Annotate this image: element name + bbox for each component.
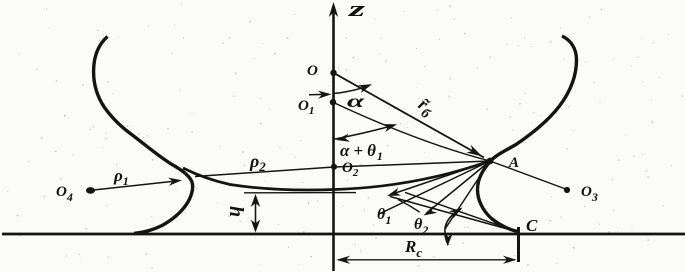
baseline [2,233,685,236]
svg-text:z: z [347,0,366,21]
arrowhead Rc left [337,256,351,264]
right flank curve [477,36,576,232]
arrowhead fan a2 [424,206,438,216]
dot O1 [330,99,336,105]
line O1 - A - O3 [333,102,567,189]
dot O [330,70,336,76]
alpha small arrow at axis [309,93,325,95]
fan line a3 from A [379,161,490,214]
arrowhead theta2 arc top [449,208,463,219]
wire rho2 line from tangency through O2 to A [195,161,490,177]
arrowhead h bottom [251,220,260,233]
arrowhead h top [251,194,260,207]
dot A [487,158,494,165]
h reference line [244,192,356,194]
arrowhead alpha arc end [358,84,372,93]
arrowhead rho1 [168,178,182,186]
alpha+theta1 arc [334,125,394,139]
svg-text:A: A [508,155,519,171]
fan line a4 from A [445,161,490,229]
arrowhead z axis [329,2,338,17]
line O2 to C [405,192,517,231]
line O to A [334,73,485,158]
theta2 angle arc [445,209,461,245]
theta1 angle arc [398,200,420,213]
Rc dimension double arrow [338,259,515,261]
alpha arc [334,86,368,94]
dot O3 [564,187,570,193]
arrowhead fan a1 [387,188,401,196]
svg-text:C: C [526,216,538,235]
arrowhead O-A line [466,145,482,157]
arrowhead alpha+theta1 left [336,134,350,142]
arrowhead alpha at axis [318,91,332,99]
arrowhead Rc right [503,256,517,264]
svg-text:O: O [307,63,318,79]
svg-text:h: h [225,206,247,217]
rho1 line from O4 [90,181,176,190]
dot O4 [86,187,95,194]
left flank curve [94,37,193,234]
fan line a2 from A [426,161,490,214]
dot O2 [331,164,337,170]
fan line a1 from A [391,161,490,195]
svg-text:α: α [347,91,366,111]
big shallow arc from left tangency to A [183,161,490,190]
arrowhead alpha+theta1 right [383,124,397,132]
arrowhead theta2 arc bottom [445,233,453,247]
z axis [332,12,335,271]
h dimension double arrow [255,197,257,230]
line C up-left [390,197,517,232]
C tick line [517,227,520,262]
